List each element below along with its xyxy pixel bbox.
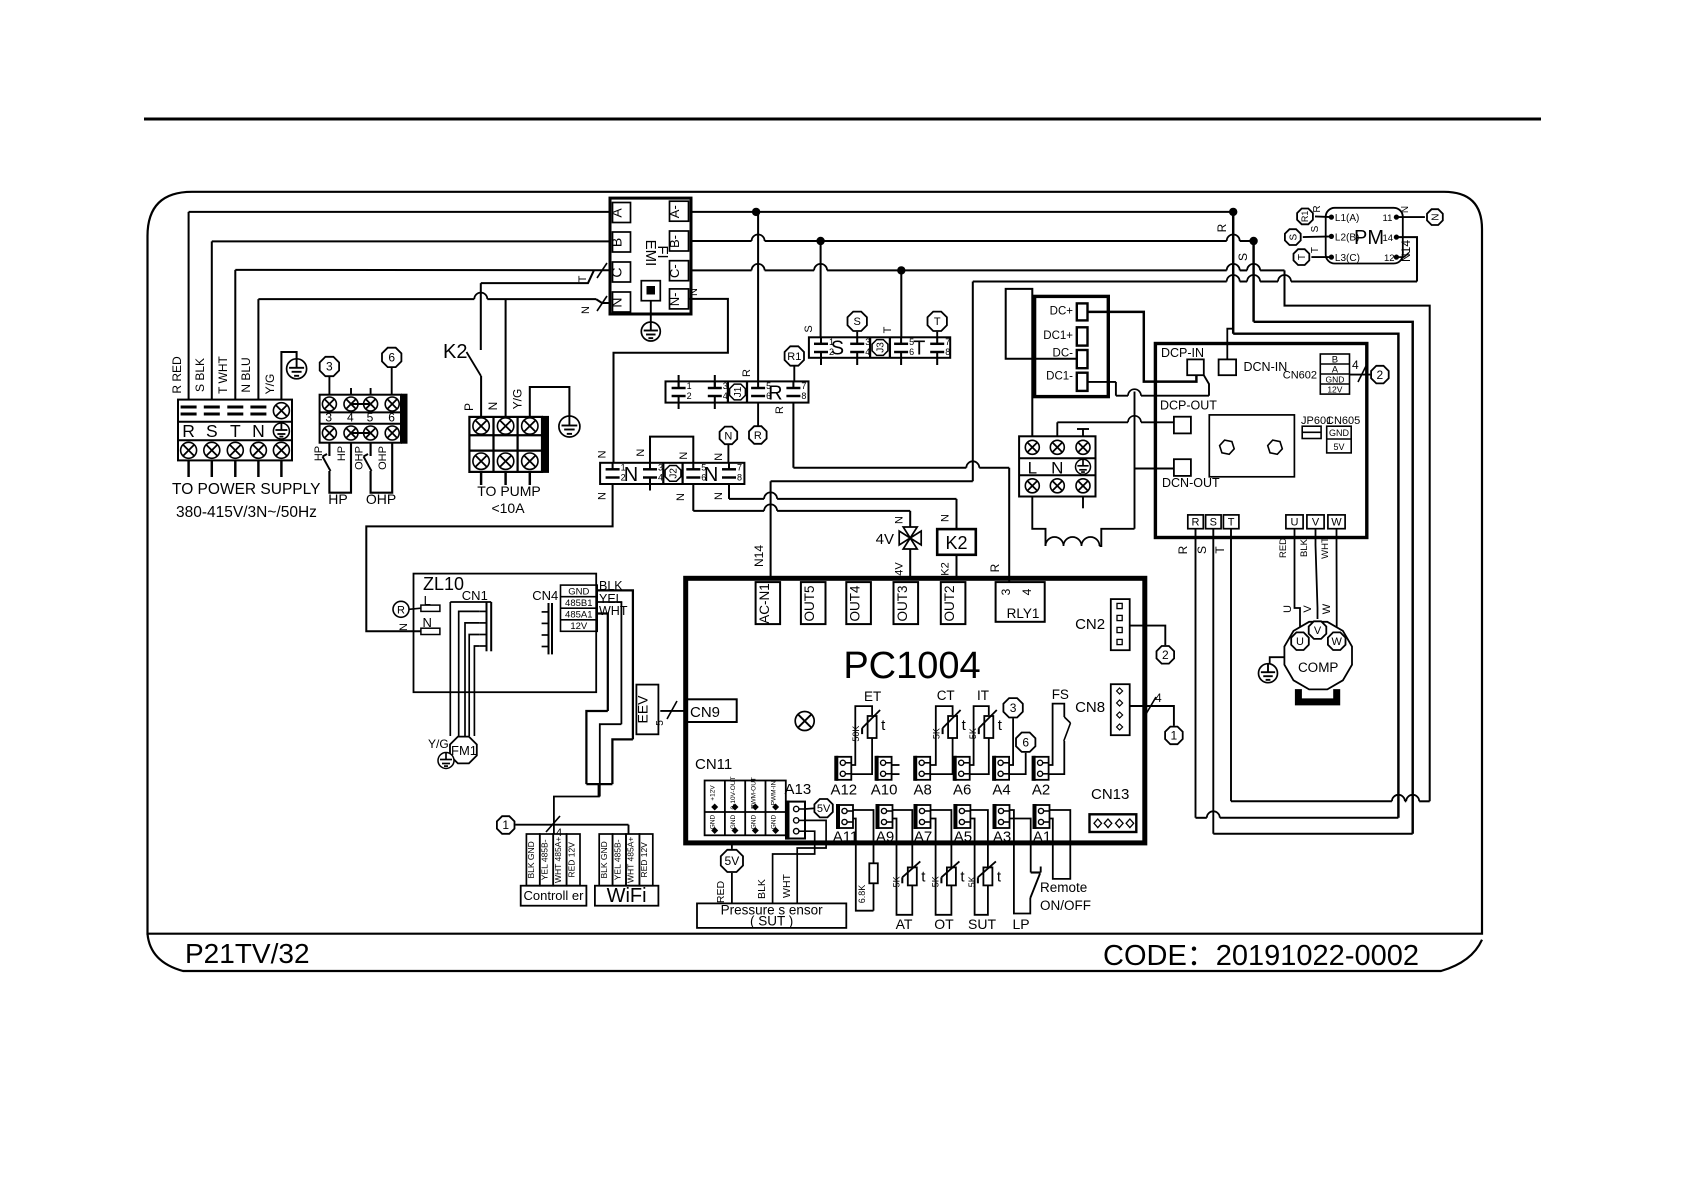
- svg-text:12V: 12V: [1327, 384, 1342, 394]
- svg-text:RED: RED: [1278, 538, 1289, 558]
- svg-text:BLK GND: BLK GND: [599, 841, 609, 878]
- svg-text:SUT: SUT: [968, 916, 996, 932]
- svg-text:P21TV/32: P21TV/32: [185, 938, 310, 969]
- svg-text:T: T: [882, 326, 894, 333]
- svg-text:A6: A6: [953, 782, 971, 799]
- svg-text:U: U: [1291, 517, 1299, 529]
- svg-text:C: C: [609, 267, 625, 277]
- svg-text:12: 12: [1384, 253, 1395, 264]
- svg-text:S: S: [854, 316, 861, 328]
- svg-text:J1: J1: [733, 386, 744, 397]
- svg-text:CN605: CN605: [1326, 415, 1360, 427]
- svg-text:N: N: [398, 623, 410, 631]
- svg-text:AT: AT: [896, 916, 913, 932]
- svg-text:GND: GND: [1325, 374, 1344, 384]
- svg-text:3: 3: [326, 360, 333, 374]
- svg-text:W: W: [1321, 603, 1333, 614]
- svg-text:DCN-IN: DCN-IN: [1244, 360, 1288, 374]
- svg-text:N: N: [713, 453, 725, 461]
- svg-text:6: 6: [388, 351, 395, 365]
- svg-text:A4: A4: [992, 782, 1010, 799]
- svg-text:RED 12V: RED 12V: [566, 842, 576, 878]
- svg-text:A13: A13: [785, 781, 812, 798]
- svg-text:J2: J2: [669, 468, 680, 479]
- svg-text:EEV: EEV: [635, 695, 651, 724]
- svg-text:485B1: 485B1: [565, 598, 592, 609]
- svg-text:12V: 12V: [570, 621, 588, 632]
- svg-text:CN2: CN2: [1075, 616, 1105, 633]
- svg-text:K2: K2: [940, 562, 952, 575]
- svg-text:V: V: [1312, 517, 1320, 529]
- svg-text:S: S: [1310, 225, 1321, 232]
- svg-text:CN9: CN9: [690, 704, 720, 721]
- svg-text:8: 8: [945, 347, 950, 357]
- svg-text:N: N: [1430, 213, 1441, 220]
- svg-text:A1: A1: [1033, 829, 1051, 846]
- svg-text:A11: A11: [833, 829, 859, 846]
- svg-text:5K: 5K: [968, 728, 978, 739]
- svg-text:N14: N14: [752, 545, 766, 567]
- svg-text:6: 6: [388, 411, 395, 425]
- svg-text:2: 2: [621, 473, 626, 483]
- svg-text:5K: 5K: [932, 728, 942, 739]
- svg-text:LP: LP: [1012, 916, 1029, 932]
- svg-text:R: R: [1215, 223, 1229, 232]
- svg-text:N: N: [713, 492, 725, 500]
- svg-text:R: R: [1176, 545, 1190, 554]
- svg-text:<10A: <10A: [491, 500, 525, 516]
- svg-text:1: 1: [621, 462, 626, 472]
- svg-text:N: N: [624, 464, 638, 486]
- svg-text:4V: 4V: [894, 562, 906, 576]
- svg-text:FS: FS: [1052, 687, 1069, 702]
- svg-text:DCP-IN: DCP-IN: [1161, 346, 1204, 360]
- svg-text:T: T: [1297, 254, 1308, 260]
- svg-text:OUT2: OUT2: [942, 585, 957, 621]
- svg-text:A3: A3: [993, 829, 1011, 846]
- svg-text:7: 7: [737, 462, 742, 472]
- svg-text:OHP: OHP: [354, 446, 366, 470]
- svg-text:WHT 485A+: WHT 485A+: [626, 837, 636, 883]
- svg-text:A9: A9: [876, 829, 894, 846]
- svg-text:S: S: [1195, 546, 1209, 554]
- svg-text:BLK: BLK: [756, 879, 768, 899]
- svg-text:R RED: R RED: [170, 356, 184, 394]
- svg-text:DC1+: DC1+: [1043, 330, 1073, 342]
- svg-text:R: R: [988, 563, 1002, 572]
- svg-text:5V: 5V: [725, 854, 740, 868]
- svg-text:R: R: [182, 421, 195, 441]
- svg-text:TO PUMP: TO PUMP: [477, 483, 541, 499]
- svg-text:R: R: [741, 369, 753, 377]
- svg-text:A7: A7: [914, 829, 932, 846]
- svg-text:3: 3: [999, 588, 1013, 595]
- svg-text:WHT 485A+: WHT 485A+: [553, 837, 563, 883]
- svg-text:YEL 485B-: YEL 485B-: [612, 839, 622, 880]
- svg-text:S: S: [803, 325, 815, 332]
- svg-text:4: 4: [865, 347, 870, 357]
- svg-text:CN8: CN8: [1075, 699, 1105, 716]
- svg-text:R: R: [754, 430, 762, 442]
- svg-text:C-: C-: [667, 264, 682, 278]
- svg-text:DC1-: DC1-: [1046, 370, 1073, 382]
- svg-text:TO POWER SUPPLY: TO POWER SUPPLY: [172, 481, 320, 498]
- svg-text:N: N: [678, 452, 690, 460]
- svg-text:6: 6: [1022, 735, 1029, 749]
- svg-text:PC1004: PC1004: [843, 645, 980, 687]
- svg-text:N-: N-: [667, 293, 682, 307]
- svg-text:1: 1: [829, 337, 834, 347]
- svg-text:A10: A10: [871, 782, 898, 799]
- svg-text:RED 12V: RED 12V: [639, 842, 649, 878]
- svg-text:Y/G: Y/G: [428, 737, 449, 751]
- svg-text:OUT3: OUT3: [895, 585, 910, 621]
- svg-text:N: N: [596, 450, 608, 458]
- svg-text:7: 7: [801, 381, 806, 391]
- svg-text:3: 3: [1010, 701, 1017, 715]
- svg-text:CN11: CN11: [695, 756, 732, 773]
- svg-text:PWM-OUT: PWM-OUT: [750, 777, 757, 809]
- svg-text:3: 3: [865, 337, 870, 347]
- svg-text:4: 4: [1020, 588, 1034, 595]
- svg-text:T: T: [577, 275, 589, 282]
- svg-text:R: R: [397, 605, 405, 617]
- svg-text:U: U: [1296, 636, 1304, 648]
- svg-text:5K: 5K: [891, 876, 901, 887]
- svg-text:T: T: [934, 316, 941, 328]
- svg-text:B: B: [609, 238, 625, 247]
- svg-text:4: 4: [1352, 358, 1359, 372]
- svg-text:WHT: WHT: [1320, 537, 1331, 559]
- svg-text:4V: 4V: [876, 531, 894, 548]
- svg-text:4: 4: [347, 411, 354, 425]
- svg-text:IT: IT: [977, 688, 989, 703]
- svg-text:5: 5: [655, 720, 666, 726]
- svg-text:Remote: Remote: [1040, 880, 1087, 895]
- svg-text:GND: GND: [730, 814, 737, 829]
- svg-text:OHP: OHP: [377, 446, 389, 470]
- svg-text:11: 11: [1383, 213, 1393, 224]
- svg-text:A5: A5: [954, 829, 972, 846]
- svg-text:1: 1: [687, 381, 692, 391]
- svg-text:YEL 485B-: YEL 485B-: [540, 839, 550, 880]
- svg-text:380-415V/3N~/50Hz: 380-415V/3N~/50Hz: [176, 504, 317, 521]
- svg-text:P: P: [462, 403, 476, 411]
- svg-text:N BLU: N BLU: [239, 357, 253, 392]
- svg-text:3: 3: [325, 411, 332, 425]
- svg-text:S: S: [1210, 517, 1217, 529]
- svg-text:RED: RED: [715, 880, 727, 903]
- svg-text:T: T: [1213, 546, 1227, 554]
- svg-text:J3: J3: [876, 342, 887, 353]
- svg-text:3: 3: [658, 462, 663, 472]
- svg-text:6: 6: [701, 473, 706, 483]
- svg-text:OUT4: OUT4: [848, 585, 863, 621]
- svg-text:6.8K: 6.8K: [857, 885, 867, 904]
- svg-text:+12V: +12V: [710, 785, 717, 801]
- svg-text:CT: CT: [937, 688, 955, 703]
- svg-text:OT: OT: [934, 916, 954, 932]
- svg-text:N: N: [675, 493, 687, 501]
- svg-text:WHT: WHT: [781, 873, 793, 897]
- svg-text:OHP: OHP: [366, 491, 396, 507]
- svg-text:HP: HP: [313, 446, 325, 461]
- svg-text:3: 3: [723, 381, 728, 391]
- svg-text:S BLK: S BLK: [193, 358, 207, 392]
- svg-text:6: 6: [909, 347, 914, 357]
- svg-text:N: N: [486, 402, 500, 411]
- svg-text:N: N: [596, 492, 608, 500]
- svg-text:ET: ET: [864, 689, 881, 704]
- svg-text:5K: 5K: [967, 876, 977, 887]
- svg-text:U: U: [1282, 605, 1294, 613]
- svg-text:CODE：20191022-0002: CODE：20191022-0002: [1103, 940, 1419, 972]
- svg-text:N: N: [252, 421, 265, 441]
- svg-text:A2: A2: [1032, 782, 1050, 799]
- svg-text:W: W: [1331, 517, 1342, 529]
- svg-text:T WHT: T WHT: [216, 355, 230, 393]
- svg-text:S: S: [1288, 233, 1299, 240]
- svg-text:W: W: [1332, 636, 1343, 648]
- svg-text:T: T: [1310, 247, 1321, 253]
- svg-text:A-: A-: [667, 205, 682, 218]
- svg-text:Y/G: Y/G: [511, 389, 525, 410]
- svg-text:N: N: [688, 288, 700, 296]
- svg-text:CN602: CN602: [1283, 370, 1317, 382]
- svg-text:L1(A): L1(A): [1335, 213, 1359, 224]
- svg-text:WHT: WHT: [599, 604, 628, 618]
- svg-text:4: 4: [658, 473, 663, 483]
- svg-text:DC-: DC-: [1053, 347, 1074, 359]
- svg-text:6: 6: [766, 391, 771, 401]
- svg-text:GND: GND: [750, 814, 757, 829]
- svg-text:GND: GND: [710, 814, 717, 829]
- svg-text:S: S: [206, 421, 218, 441]
- svg-text:WiFi: WiFi: [607, 885, 647, 907]
- svg-text:N: N: [1400, 206, 1411, 213]
- svg-text:50K: 50K: [851, 726, 861, 742]
- svg-text:COMP: COMP: [1298, 660, 1339, 675]
- svg-text:A12: A12: [830, 782, 857, 799]
- svg-text:ZL10: ZL10: [423, 574, 464, 594]
- svg-text:HP: HP: [328, 491, 347, 507]
- svg-text:PM: PM: [1354, 227, 1384, 249]
- svg-text:RLY1: RLY1: [1007, 606, 1040, 621]
- svg-text:PWM-IN: PWM-IN: [771, 780, 778, 805]
- svg-text:2: 2: [1377, 368, 1384, 382]
- svg-text:8: 8: [801, 391, 806, 401]
- svg-text:HP: HP: [336, 446, 348, 461]
- svg-text:N: N: [940, 514, 952, 522]
- svg-text:1: 1: [1171, 729, 1178, 743]
- svg-text:5K: 5K: [930, 876, 940, 887]
- svg-text:GND: GND: [568, 586, 589, 597]
- svg-text:7: 7: [945, 337, 950, 347]
- svg-text:K2: K2: [945, 533, 967, 553]
- svg-text:S: S: [1236, 253, 1250, 261]
- svg-text:DC+: DC+: [1050, 306, 1074, 318]
- svg-text:5: 5: [909, 337, 914, 347]
- svg-text:4: 4: [723, 391, 728, 401]
- svg-text:GND: GND: [771, 814, 778, 829]
- svg-text:2: 2: [687, 391, 692, 401]
- svg-text:OUT5: OUT5: [802, 585, 817, 621]
- svg-text:V: V: [1302, 605, 1314, 613]
- svg-text:K2: K2: [443, 341, 467, 363]
- svg-text:8: 8: [737, 473, 742, 483]
- svg-text:5V: 5V: [1333, 442, 1344, 452]
- svg-text:DCN-OUT: DCN-OUT: [1162, 476, 1220, 490]
- svg-text:BLK: BLK: [1299, 538, 1310, 557]
- svg-text:2: 2: [829, 347, 834, 357]
- svg-text:5V: 5V: [817, 803, 831, 815]
- svg-text:N: N: [1051, 459, 1063, 478]
- svg-text:A8: A8: [914, 782, 932, 799]
- svg-text:BLK GND: BLK GND: [526, 841, 536, 878]
- svg-text:5: 5: [766, 381, 771, 391]
- svg-text:CN1: CN1: [462, 588, 488, 603]
- svg-text:L: L: [1028, 459, 1037, 478]
- svg-text:R: R: [1192, 517, 1200, 529]
- svg-text:FI: FI: [654, 245, 671, 258]
- svg-text:N: N: [724, 430, 732, 442]
- svg-text:2: 2: [1162, 648, 1169, 662]
- svg-text:485A1: 485A1: [565, 609, 592, 620]
- svg-text:N: N: [609, 297, 625, 307]
- svg-text:14: 14: [1383, 233, 1394, 244]
- svg-text:N: N: [635, 449, 647, 457]
- svg-text:CN13: CN13: [1091, 786, 1129, 803]
- svg-text:V: V: [1314, 625, 1322, 637]
- svg-text:GND: GND: [1329, 428, 1350, 438]
- svg-text:( SUT ): ( SUT ): [750, 914, 793, 929]
- svg-text:5: 5: [367, 411, 374, 425]
- svg-text:T: T: [1228, 517, 1235, 529]
- svg-text:ON/OFF: ON/OFF: [1040, 898, 1091, 913]
- svg-text:N: N: [580, 306, 592, 314]
- svg-text:CN4: CN4: [532, 588, 558, 603]
- svg-text:T: T: [913, 338, 925, 360]
- svg-text:Controll er: Controll er: [524, 888, 585, 903]
- svg-text:R1: R1: [1300, 211, 1310, 223]
- svg-text:R1: R1: [787, 351, 801, 363]
- svg-text:R: R: [1312, 205, 1323, 212]
- svg-text:T: T: [230, 421, 241, 441]
- svg-text:5: 5: [701, 462, 706, 472]
- svg-text:FM1: FM1: [451, 743, 477, 758]
- svg-text:Y/G: Y/G: [263, 374, 277, 395]
- svg-text:A: A: [609, 208, 625, 218]
- svg-text:DCP-OUT: DCP-OUT: [1160, 399, 1217, 413]
- svg-text:R: R: [774, 406, 786, 414]
- svg-text:N: N: [894, 516, 906, 524]
- svg-text:L3(C): L3(C): [1335, 253, 1360, 264]
- svg-text:1: 1: [502, 818, 509, 832]
- svg-text:AC-N1: AC-N1: [757, 583, 772, 624]
